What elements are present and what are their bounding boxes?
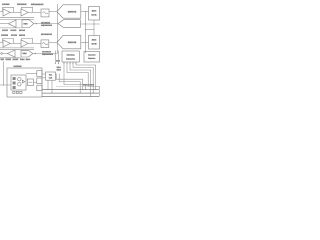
- user control box U6: [84, 52, 100, 63]
- wire DAC A input: [34, 23, 58, 25]
- filter symbol: [42, 12, 48, 14]
- pump mark: [28, 81, 32, 83]
- feedback loop amp B2: [21, 38, 32, 43]
- feedback loop amp B1: [3, 38, 14, 43]
- rail below B1: [0, 47, 34, 49]
- op-amp A2: [21, 9, 28, 16]
- wire elbow left 1: [56, 74, 82, 90]
- wire vref pin: [3, 62, 5, 86]
- bus line 3: [42, 95, 99, 97]
- regulator inner box: [11, 75, 26, 90]
- output amp B (left pointing): [7, 50, 15, 57]
- stacked box 2: [37, 78, 42, 84]
- feedback lines output amp B: [0, 49, 34, 51]
- wire elbow 3: [70, 62, 91, 96]
- wire elbow 5: [64, 62, 86, 90]
- wire pll down 2: [51, 80, 53, 93]
- wire elbow 1: [76, 62, 96, 90]
- power management block: [7, 68, 42, 97]
- pin terminal: [1, 53, 3, 55]
- timing control box U5: [62, 51, 79, 62]
- stacked box 3: [37, 85, 42, 90]
- DAC modulator A: [58, 20, 80, 28]
- osc circle 1: [18, 78, 21, 81]
- rail below A1: [0, 16, 34, 18]
- bus right edge: [98, 86, 100, 96]
- cell 1: [13, 77, 16, 80]
- wire output B pin: [2, 53, 7, 55]
- filter U1 anti-alias LPF A: [41, 9, 49, 17]
- op-amp B1: [3, 40, 10, 47]
- op-amp A1: [3, 9, 10, 16]
- bus line 1: [42, 89, 99, 91]
- wire ADC A out: [81, 11, 89, 13]
- wire B1 out: [10, 42, 21, 44]
- arrowhead: [34, 53, 36, 55]
- wire pump to stack: [34, 81, 37, 83]
- small marks: [13, 91, 15, 93]
- wire to ADC B: [49, 41, 57, 43]
- wire to ADC A: [49, 11, 57, 13]
- wire elbow left 2: [59, 74, 80, 94]
- clock taps left: [54, 51, 56, 64]
- charge pump box: [27, 79, 33, 86]
- interconnect box A to B: [93, 20, 95, 36]
- ADC A: [57, 5, 81, 18]
- buffer triangle: [22, 80, 24, 83]
- output amp A (left pointing): [8, 20, 16, 27]
- node: [93, 23, 94, 24]
- wire elbow 4: [67, 62, 99, 86]
- wire pll down 1: [47, 80, 49, 89]
- arrowhead: [35, 23, 37, 25]
- vertical bus line right: [84, 12, 86, 53]
- feedback loop amp A1: [3, 7, 14, 12]
- node: [85, 42, 86, 43]
- op-amp B2: [21, 40, 28, 47]
- wire B2 out: [28, 42, 41, 44]
- feedback lines output amp A: [0, 18, 34, 20]
- wire stub y24: [81, 23, 100, 25]
- PLL box U7: [46, 72, 56, 80]
- clock bus elbows: [63, 63, 64, 64]
- wire ADC B out: [81, 41, 89, 43]
- wire stack to pll 2: [42, 77, 46, 79]
- node: [85, 23, 86, 24]
- wire output A pin: [0, 23, 8, 25]
- stacked box 1: [37, 71, 42, 77]
- register box U2 data A: [89, 7, 100, 21]
- loopback vertical wire: [56, 4, 58, 54]
- node: [3, 84, 4, 85]
- osc circle 2: [18, 83, 21, 86]
- cell 2: [13, 82, 16, 85]
- wire input B: [0, 41, 3, 43]
- wire elbow 2: [73, 62, 93, 93]
- wire A1 out: [10, 11, 21, 13]
- wire stack to pll 1: [42, 73, 46, 75]
- wire DAC B input: [33, 53, 58, 55]
- bus line 2: [42, 92, 99, 94]
- wire input A: [0, 10, 3, 12]
- ADC B: [57, 35, 81, 48]
- node bus tap A: [85, 11, 86, 12]
- faint bus line: [56, 85, 99, 87]
- register box U4 data B: [89, 36, 100, 50]
- DAC B: [21, 50, 33, 57]
- filter U3 anti-alias LPF B: [41, 40, 49, 48]
- DAC A: [22, 20, 34, 28]
- feedback loop amp A2: [21, 7, 32, 12]
- cell 3: [13, 86, 16, 89]
- wire regulator to stack: [26, 73, 37, 75]
- node: [85, 29, 86, 30]
- wire into power block: [0, 84, 11, 86]
- wire stub y29.7: [85, 29, 94, 31]
- filter symbol: [42, 43, 48, 45]
- wire A2 out: [28, 11, 41, 13]
